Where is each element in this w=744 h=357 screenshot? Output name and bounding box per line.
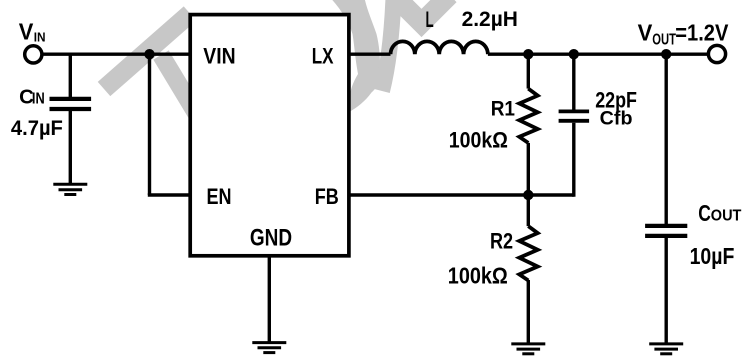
node: Cfb top junction: [569, 49, 579, 59]
capacitor COUT: [645, 226, 687, 236]
wire: FB horizontal: [349, 193, 574, 196]
wire: R2 bottom lead to ground: [527, 280, 530, 344]
svg-text:2.2µH: 2.2µH: [462, 6, 518, 31]
node: input junction: [144, 49, 154, 59]
svg-text:R1: R1: [491, 96, 515, 121]
terminal VOUT: [708, 45, 725, 62]
wire: COUT bottom lead: [665, 238, 668, 344]
watermark letter T (rotated): [104, 14, 196, 114]
capacitor Cfb: [559, 111, 590, 120]
svg-text:4.7µF: 4.7µF: [11, 117, 63, 140]
wire: Cfb bottom lead: [572, 123, 575, 197]
svg-text:FB: FB: [315, 184, 339, 209]
wire: EN feed vertical: [148, 54, 151, 195]
node: FB junction: [523, 190, 533, 200]
inductor L: [391, 41, 488, 54]
resistor R1: [519, 89, 537, 143]
ground (IC GND): [252, 343, 286, 353]
watermark letter V: [394, 0, 450, 23]
wire: Cfb top lead: [572, 54, 575, 109]
svg-text:VIN: VIN: [203, 43, 235, 68]
svg-text:L: L: [426, 7, 434, 32]
watermark letter U (right limb): [382, 0, 394, 91]
terminal VIN: [25, 46, 42, 63]
node: R1 top junction: [523, 49, 533, 59]
wire: R1 bottom to R2 top through FB node: [527, 143, 530, 226]
wire: CIN branch upper: [69, 54, 72, 97]
wire: IC GND down: [268, 256, 271, 343]
svg-text:100kΩ: 100kΩ: [448, 263, 508, 289]
svg-text:LX: LX: [312, 43, 334, 68]
svg-text:IN: IN: [32, 90, 45, 107]
wire: R1 top lead: [527, 54, 530, 88]
ground (CIN): [53, 184, 87, 194]
wire: top rail input (VIN terminal to IC): [42, 53, 191, 56]
wire: CIN branch lower: [69, 111, 72, 184]
svg-text:Cfb: Cfb: [600, 109, 633, 130]
svg-text:GND: GND: [250, 224, 292, 251]
svg-text:V: V: [19, 19, 34, 45]
svg-text:V: V: [638, 19, 653, 45]
resistor R2: [519, 226, 537, 280]
label VIN terminal: [19, 19, 46, 45]
wire: COUT top lead: [665, 54, 668, 224]
svg-text:C: C: [698, 200, 711, 226]
svg-text:R2: R2: [490, 228, 513, 253]
ground (R2): [511, 344, 545, 354]
node: VOUT junction: [661, 49, 671, 59]
wire: LX to inductor: [349, 53, 391, 56]
watermark letter U (curved swash body): [331, 0, 381, 112]
op-amp U1 : regulator IC box: [190, 15, 349, 256]
svg-text:100kΩ: 100kΩ: [449, 128, 508, 153]
svg-text:IN: IN: [34, 29, 46, 44]
wire: EN feed horizontal: [148, 193, 190, 196]
svg-text:=1.2V: =1.2V: [675, 19, 728, 45]
capacitor CIN: [50, 99, 92, 109]
ground (COUT): [649, 344, 683, 354]
svg-text:OUT: OUT: [652, 31, 676, 48]
label CIN: [19, 85, 45, 108]
svg-text:OUT: OUT: [711, 208, 742, 225]
label VOUT=1.2V: [638, 19, 729, 48]
label COUT: [698, 200, 741, 226]
svg-text:10µF: 10µF: [690, 243, 735, 269]
svg-text:EN: EN: [207, 184, 232, 209]
wire: inductor to VOUT terminal: [488, 53, 709, 56]
